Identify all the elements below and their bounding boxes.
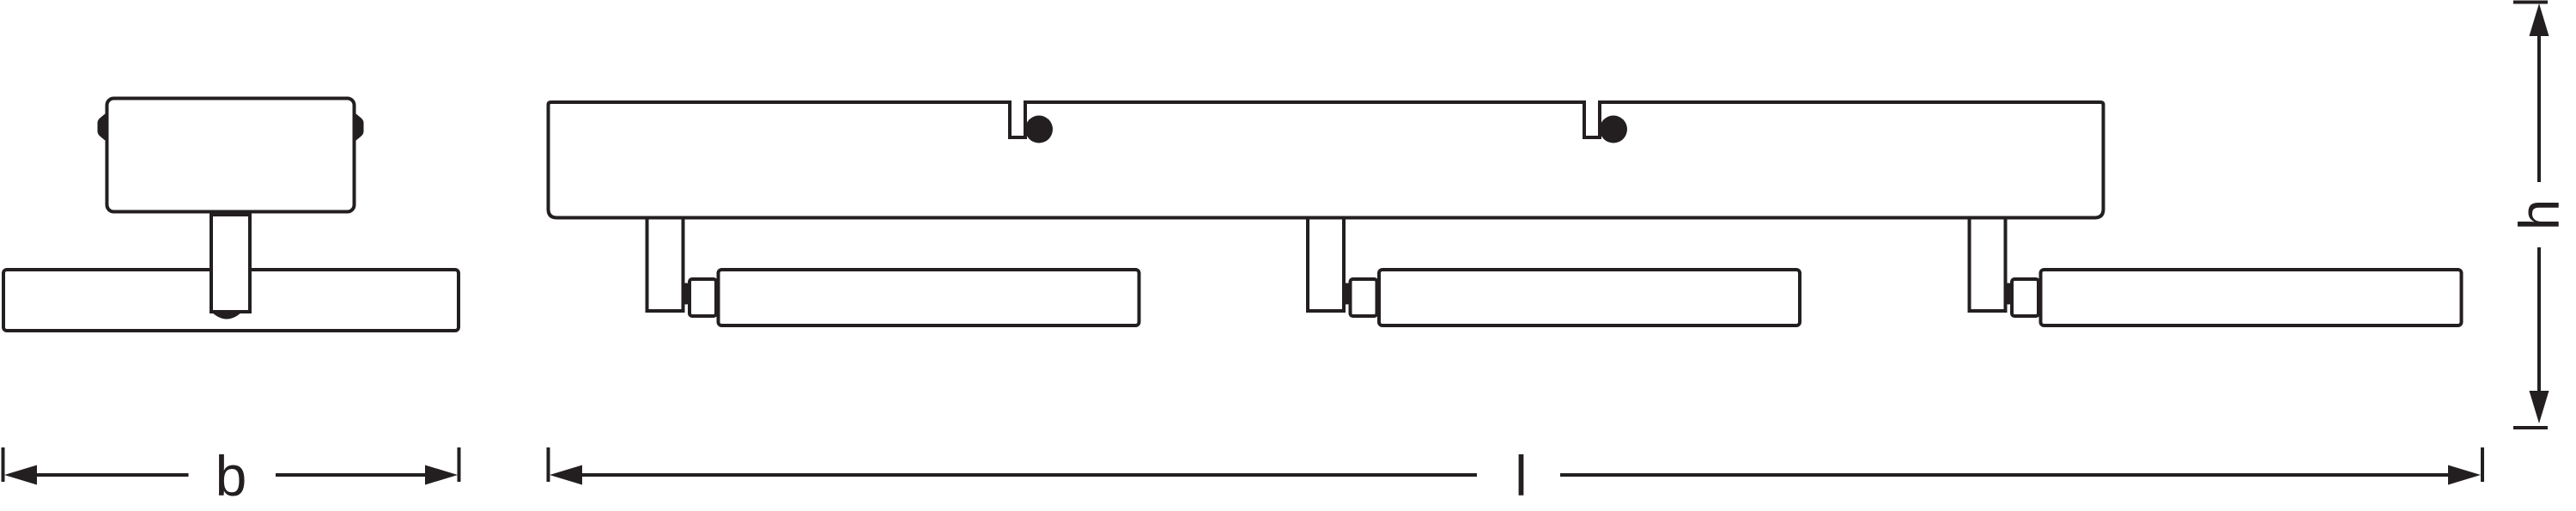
dimension h: top extension tick xyxy=(2513,1,2548,4)
svg-text:b: b xyxy=(216,444,247,508)
front view lamp 1: spot tube xyxy=(719,270,1139,325)
dimension b: left shaft xyxy=(35,473,189,477)
front view lamp 1: connector block xyxy=(690,279,716,316)
dimension h: upper shaft xyxy=(2537,34,2541,182)
dimension h: bottom arrow xyxy=(2530,391,2549,423)
dimension b: left extension tick xyxy=(2,447,5,482)
front view: fixing screw dot 1 xyxy=(1025,116,1053,143)
front view lamp 1: stem xyxy=(647,218,683,312)
dimension l: right shaft xyxy=(1560,473,2450,477)
dimension l: left extension tick xyxy=(547,447,550,482)
front view: fixing screw dot 2 xyxy=(1600,116,1627,143)
side view: left fixing screw bump xyxy=(98,112,109,143)
dimension h: lower shaft xyxy=(2537,247,2541,392)
front view: mounting rail with two cable notches xyxy=(549,102,2104,218)
svg-text:l: l xyxy=(1515,444,1528,508)
dimension l: left arrow xyxy=(550,465,582,485)
front view lamp 3: spot tube xyxy=(2041,270,2462,325)
dimension b: right extension tick xyxy=(458,447,461,482)
front view lamp 3: swivel joint arc xyxy=(2004,283,2014,305)
side view: swivel joint arc under stem xyxy=(210,311,243,319)
side view: swivel stem xyxy=(211,215,250,312)
svg-text:h: h xyxy=(2507,199,2571,231)
dimension h: top arrow xyxy=(2530,3,2549,36)
front view lamp 2: swivel joint arc xyxy=(1342,283,1352,305)
front view lamp 2: connector block xyxy=(1351,279,1377,316)
side view: lamp bar (tube seen from side) xyxy=(3,270,459,331)
dimension h: bottom extension tick xyxy=(2513,426,2548,429)
front view lamp 1: swivel joint arc xyxy=(682,283,691,305)
dimension l: right arrow xyxy=(2448,465,2481,485)
front view lamp 3: connector block xyxy=(2012,279,2038,316)
side view: ceiling canopy box xyxy=(107,99,355,212)
dimension b: right shaft xyxy=(276,473,427,477)
dimension l: left shaft xyxy=(580,473,1477,477)
dimension l: right extension tick xyxy=(2481,447,2484,482)
side view: right fixing screw bump xyxy=(353,112,364,143)
front view lamp 2: stem xyxy=(1308,218,1344,312)
dimension b: right arrow xyxy=(425,465,458,485)
dimension b: left arrow xyxy=(4,465,37,485)
front view lamp 2: spot tube xyxy=(1379,270,1800,325)
front view lamp 3: stem xyxy=(1970,218,2006,312)
